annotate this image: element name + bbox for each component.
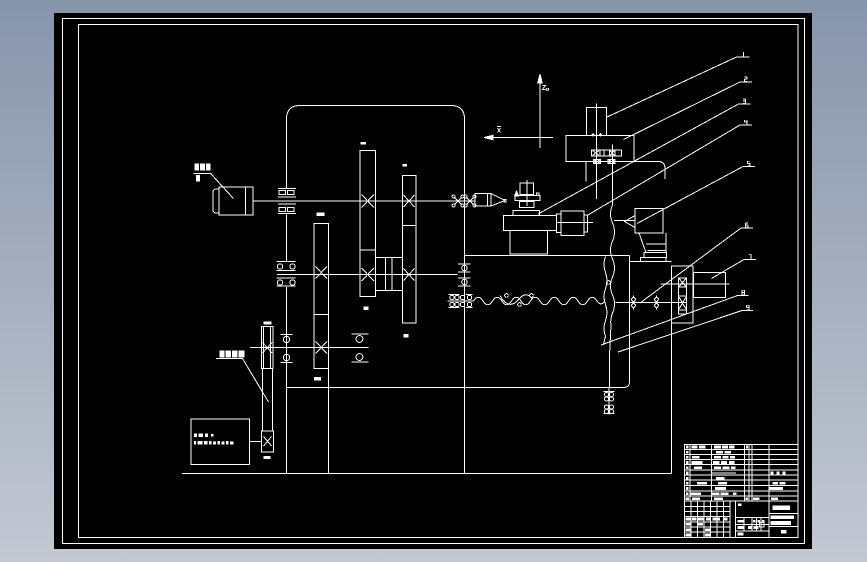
tailstock axis bbox=[557, 221, 636, 223]
gear labels bbox=[361, 142, 366, 145]
leader 7 bbox=[712, 260, 757, 279]
floor line bbox=[182, 473, 672, 475]
bed top line bbox=[465, 255, 630, 257]
spindle cylinder bbox=[694, 273, 726, 298]
feed label leader bbox=[216, 359, 269, 403]
shaft I bbox=[253, 200, 476, 202]
work clamp assembly bbox=[526, 180, 528, 206]
outer border frame bbox=[63, 19, 805, 544]
leader numbers bbox=[497, 52, 751, 310]
cross feed label bbox=[219, 350, 224, 357]
dead center bbox=[475, 194, 491, 207]
title block bbox=[685, 445, 799, 538]
school name blob bbox=[773, 506, 791, 510]
housing left vertical segments bbox=[286, 215, 288, 474]
leader 5 bbox=[637, 167, 755, 224]
machine housing rounded top bbox=[287, 106, 465, 474]
title area right cells bbox=[769, 514, 798, 527]
quill with center bbox=[625, 216, 636, 228]
headstock ledge bbox=[630, 261, 672, 263]
quill bracket bbox=[639, 233, 666, 253]
spindle axis bbox=[661, 283, 730, 285]
gear block C bbox=[314, 224, 329, 369]
headstock right vertical bbox=[671, 266, 673, 474]
drawing title blobs bbox=[771, 516, 794, 520]
shift fork box bbox=[376, 258, 403, 291]
gear block A bbox=[360, 151, 376, 251]
leader 8 bbox=[601, 296, 749, 346]
leader 9 bbox=[618, 311, 753, 353]
parts list columns bbox=[690, 445, 769, 538]
universal joints on shaft I bbox=[455, 198, 462, 205]
bearing brackets right side bbox=[458, 264, 471, 272]
formula text box bbox=[191, 419, 250, 465]
leader 3 bbox=[538, 104, 751, 214]
title area middle cells bbox=[736, 518, 770, 532]
tool slide centerline bbox=[612, 145, 614, 206]
column under gear C bbox=[328, 369, 330, 474]
vertical break wavy bbox=[610, 205, 615, 388]
spindle bearings bbox=[633, 296, 635, 310]
carriage edge bbox=[634, 162, 665, 180]
gear D bbox=[262, 327, 274, 369]
bed bottom line bbox=[287, 256, 630, 388]
title block text blobs bbox=[686, 446, 794, 537]
tool post bbox=[587, 108, 607, 136]
coordinate axes bbox=[539, 81, 541, 148]
gear block B bbox=[403, 176, 417, 226]
bearing pair shaft III bbox=[352, 333, 369, 335]
bearing stack below headstock bbox=[608, 388, 610, 415]
formula box text bbox=[194, 433, 197, 437]
inner border frame bbox=[79, 25, 799, 538]
leader 4 bbox=[588, 125, 752, 215]
coupling on shaft I bbox=[278, 189, 296, 214]
motor M1 bbox=[213, 189, 219, 213]
shaft II bbox=[277, 274, 458, 276]
leader 1 bbox=[606, 57, 750, 118]
label blobs (simulated dense CJK text) bbox=[194, 142, 409, 459]
leader 6 bbox=[640, 228, 753, 303]
bearing block on shaft II bbox=[277, 262, 296, 287]
double bearing rows bbox=[449, 294, 473, 296]
bearing pair on vertical shaft bbox=[281, 334, 293, 336]
feed screw box bbox=[262, 431, 274, 452]
leader 2 bbox=[624, 82, 753, 140]
vertical screw shaft bbox=[263, 369, 273, 431]
screws below tool post bbox=[594, 160, 601, 164]
title area left grid bbox=[685, 507, 731, 533]
shaft III bbox=[250, 347, 369, 349]
tool bit bbox=[585, 162, 587, 182]
motor leader bbox=[211, 174, 234, 199]
parts list rows bbox=[685, 450, 799, 502]
lower spindle axis bbox=[616, 302, 687, 304]
small feed motor bbox=[557, 214, 562, 233]
horizontal break wavy bbox=[474, 297, 605, 305]
motor label bbox=[195, 164, 200, 171]
chuck housing bbox=[672, 266, 694, 323]
